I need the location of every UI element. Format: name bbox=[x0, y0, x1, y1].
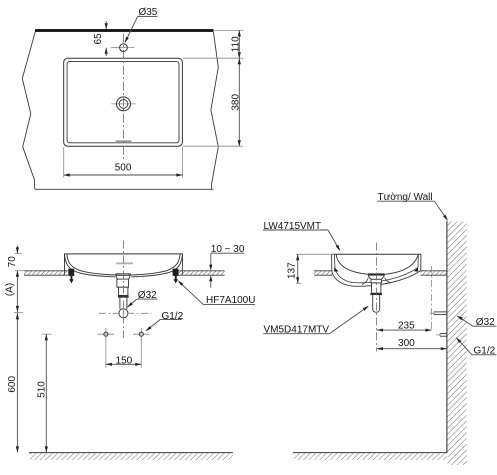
front view: drain flange bbox=[116, 273, 131, 275]
top view: left break line bbox=[22, 32, 35, 190]
front view: overflow hidden line bbox=[116, 262, 133, 264]
svg-text:150: 150 bbox=[116, 355, 133, 366]
top view: drain outer circle bbox=[117, 97, 131, 111]
dimension 510 bbox=[42, 333, 52, 335]
svg-text:380: 380 bbox=[230, 94, 241, 111]
svg-text:510: 510 bbox=[37, 381, 48, 398]
top view: sink inner outline bbox=[67, 62, 179, 143]
side view: front wall edges bbox=[331, 254, 333, 271]
front view: sink right edge bbox=[181, 254, 183, 275]
dimension 110 bbox=[214, 29, 243, 31]
front view: right supply point G1/2 bbox=[133, 333, 149, 335]
dimension 235 bbox=[431, 266, 433, 330]
dimension 600 bbox=[16, 313, 19, 319]
top view: vertical center line bbox=[122, 34, 124, 162]
front view: counter surface left piece bbox=[24, 271, 68, 275]
side view: wall hatching bbox=[448, 222, 467, 465]
svg-text:65: 65 bbox=[93, 33, 104, 45]
front view: sink left edge bbox=[63, 254, 65, 275]
svg-text:(A): (A) bbox=[5, 283, 16, 296]
top view: right break line bbox=[211, 32, 218, 190]
side view: supply stub G1/2 bbox=[440, 333, 447, 335]
dimension 70 bbox=[15, 252, 22, 254]
top view: sink outer outline bbox=[64, 58, 183, 146]
dimension 300 bbox=[377, 348, 447, 350]
front view: right fixing bolt bbox=[173, 269, 179, 276]
front view: floor hatching bbox=[30, 453, 233, 460]
side view: bowl outer underside bbox=[332, 271, 421, 287]
front view: sink rim line bbox=[64, 253, 183, 255]
dimension 380 bbox=[183, 145, 243, 147]
dimension 137 bbox=[296, 253, 334, 255]
svg-text:300: 300 bbox=[398, 338, 415, 349]
dimension 150 bbox=[105, 340, 107, 369]
top view: drain inner circle bbox=[119, 100, 128, 109]
top view: counter bottom edge bbox=[35, 188, 214, 190]
side view: bowl-to-drain fillets bbox=[362, 278, 368, 285]
side view: drain body bbox=[371, 279, 381, 283]
top view: counter front edge (thick line) bbox=[35, 29, 213, 32]
side view: back clamp bbox=[414, 267, 418, 271]
svg-text:110: 110 bbox=[230, 36, 241, 52]
svg-text:500: 500 bbox=[115, 163, 132, 174]
side view: center line bbox=[375, 243, 377, 352]
svg-text:137: 137 bbox=[286, 262, 297, 279]
front view: drain coupling nut bbox=[118, 295, 129, 297]
side view: front clamp bbox=[334, 267, 338, 271]
side view: counter right piece bbox=[421, 271, 447, 275]
svg-text:G1/2: G1/2 bbox=[162, 311, 184, 322]
front view: floor line bbox=[29, 452, 233, 454]
front view: counter surface right piece bbox=[174, 271, 225, 275]
dimension 65 bbox=[105, 21, 107, 29]
front view: tailpipe level center line bbox=[99, 312, 152, 314]
front view: center line bbox=[122, 241, 124, 339]
front view: drain upper pipe bbox=[119, 287, 128, 295]
top view: faucet hole circle bbox=[120, 44, 128, 52]
front view: bowl outer curve bbox=[64, 254, 182, 277]
front view: drain body bbox=[117, 279, 129, 287]
leader Ø35 bbox=[138, 16, 158, 18]
side view: floor line bbox=[293, 452, 447, 454]
dimension 500 bbox=[63, 147, 65, 177]
side view: drain step bbox=[372, 283, 381, 293]
side view: wall face line bbox=[446, 221, 448, 453]
side view: basin inner curve bbox=[336, 255, 418, 275]
top view: drain crosshair bbox=[111, 103, 135, 105]
svg-text:235: 235 bbox=[398, 321, 415, 332]
top view: faucet hole crosshair bbox=[112, 47, 134, 49]
side view: sink rim line bbox=[331, 253, 421, 255]
front view: drain tailpipe bbox=[119, 298, 121, 310]
svg-text:70: 70 bbox=[7, 256, 18, 268]
top view: overflow slot bbox=[116, 140, 132, 142]
side view: counter left piece bbox=[314, 271, 332, 275]
side view: drain flange bbox=[368, 273, 385, 275]
side view: floor hatching bbox=[294, 453, 447, 460]
dimension (A) bbox=[16, 271, 18, 453]
svg-text:600: 600 bbox=[7, 376, 18, 393]
front view: left fixing bolt bbox=[68, 269, 74, 276]
side view: drain outlet stub Ø32 bbox=[434, 311, 447, 313]
front view: tailpipe end circle bbox=[119, 309, 128, 318]
side view: coupling nut bbox=[370, 293, 382, 295]
front view: left supply point G1/2 bbox=[98, 333, 114, 335]
side view: back wall edges bbox=[420, 254, 422, 271]
side view: tailpipe with rounded end bbox=[373, 295, 380, 312]
front view: bowl inner curve bbox=[67, 254, 180, 275]
